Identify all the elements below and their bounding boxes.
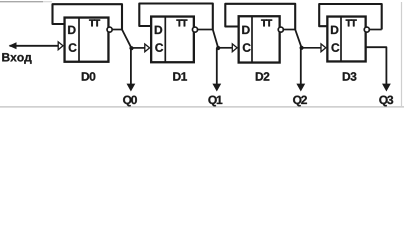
pin label D U1	[68, 26, 75, 34]
pin label C U3	[243, 43, 251, 52]
pin label C U4	[331, 43, 339, 52]
label Q3	[379, 96, 393, 107]
pin label D U2	[155, 26, 162, 34]
pin label C U2	[155, 43, 163, 52]
label D0	[82, 72, 96, 81]
label Вход (input)	[2, 53, 31, 64]
feedback wire from inverted output over box U3 to D input	[225, 4, 295, 30]
node junction J0	[129, 46, 133, 50]
label TT U3	[261, 20, 272, 27]
clock dynamic-input triangle U2	[145, 44, 150, 52]
wire inverted output U2	[198, 29, 213, 31]
label Q0	[123, 96, 137, 107]
border right	[401, 2, 403, 107]
arrow output Q2	[296, 84, 305, 92]
label D2	[256, 72, 270, 80]
node junction J1	[216, 46, 220, 50]
border bottom	[0, 106, 404, 108]
wire diagonal from U2 output corner to node J1	[213, 30, 218, 49]
arrow output Q0	[127, 84, 136, 92]
pin label C U1	[69, 43, 77, 52]
wire diagonal from U3 output corner to node J2	[295, 30, 301, 48]
input wire Вход	[10, 45, 59, 47]
wire inverted output U4	[369, 29, 381, 31]
pin label D U3	[242, 26, 249, 34]
label TT U4	[346, 20, 357, 27]
wire diagonal from U1 output corner to node J0	[122, 30, 132, 49]
arrow output Q1	[212, 84, 221, 92]
feedback wire from inverted output over box U4 to D input	[319, 4, 382, 30]
label Q2	[293, 96, 307, 107]
inversion bubble U4 output	[364, 27, 369, 32]
feedback wire from inverted output over box U2 to D input	[139, 4, 213, 30]
wire node J1 down to Q1 arrow	[216, 48, 218, 85]
wire node J0 to C input of U2	[132, 47, 146, 49]
D flip-flop U4 box	[327, 16, 365, 61]
wire node J0 down to Q0 arrow	[130, 48, 132, 84]
label TT U1	[89, 20, 100, 27]
border top	[0, 1, 43, 3]
clock dynamic-input triangle U3	[232, 44, 237, 52]
clock dynamic-input triangle U4	[321, 44, 326, 52]
inversion bubble U1 output	[107, 27, 112, 32]
wire inverted output U1	[112, 29, 122, 31]
arrow output Q3	[382, 84, 391, 92]
node junction J2	[300, 46, 304, 50]
label TT U2	[176, 20, 187, 27]
wire node J1 to C input of U3	[218, 47, 232, 49]
arrow input pointing left	[9, 42, 17, 49]
inversion bubble U2 output	[192, 27, 197, 32]
feedback wire from inverted output over box U1 to D input	[53, 4, 123, 29]
label Q1	[208, 96, 222, 107]
wire Q3 tap from U4 right edge	[366, 47, 387, 84]
wire inverted output U3	[283, 29, 295, 31]
wire node J2 down to Q2 arrow	[300, 48, 302, 85]
label D1	[173, 72, 187, 80]
clock dynamic-input triangle U1	[58, 42, 63, 50]
D flip-flop U1 box	[65, 17, 109, 62]
wire node J2 to C input of U4	[302, 47, 322, 49]
pin label D U4	[331, 26, 338, 34]
label D3	[343, 72, 357, 81]
D flip-flop U3 box	[239, 16, 280, 63]
D flip-flop U2 box	[151, 16, 194, 62]
inversion bubble U3 output	[278, 27, 283, 32]
